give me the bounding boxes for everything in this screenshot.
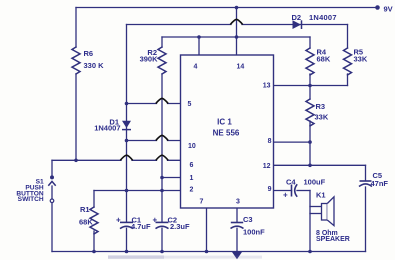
svg-text:33K: 33K — [354, 54, 368, 63]
wire C5 column — [365, 165, 367, 251]
svg-text:1N4007: 1N4007 — [309, 13, 337, 22]
wire hop over D1 column on pin 6 line — [120, 155, 132, 160]
svg-text:C4: C4 — [286, 177, 296, 186]
wire hop over pin14 column on line B — [230, 19, 242, 24]
wire hop over C2 column on pin 6 line — [156, 155, 168, 160]
resistor R1 — [90, 207, 98, 234]
wire pin 2 line (R1 top to IC) — [94, 190, 181, 192]
svg-text:330 K: 330 K — [84, 61, 105, 70]
wire R6 bottom lead to pin6 line — [75, 74, 77, 160]
wire R1 bottom lead — [93, 231, 95, 252]
op-amp U1 / IC box IC1 NE556 — [181, 55, 274, 208]
svg-text:R3: R3 — [316, 102, 326, 111]
wire line B right of hop — [242, 24, 348, 26]
wire pin 3 stub / C3 column — [236, 208, 238, 252]
switch S1 push button — [16, 175, 55, 203]
node C2 column / pin1 line — [160, 176, 164, 180]
node D1 column / pin5 line — [125, 102, 129, 106]
svg-text:9V: 9V — [384, 5, 393, 14]
ground — [232, 251, 243, 259]
wire R5 bottom lead — [347, 74, 349, 86]
wire pin 8 line — [274, 141, 311, 143]
wire speaker column — [309, 191, 311, 252]
svg-text:9: 9 — [268, 186, 272, 193]
wire speaker bottom stub — [310, 213, 322, 215]
svg-text:2.3uF: 2.3uF — [170, 222, 190, 231]
svg-text:2: 2 — [190, 186, 194, 193]
svg-text:1: 1 — [190, 175, 194, 182]
resistor label R1 — [79, 205, 93, 227]
resistor label R4 — [317, 48, 331, 64]
svg-text:R1: R1 — [80, 205, 90, 214]
svg-text:100nF: 100nF — [243, 227, 265, 236]
wire pin 5 line — [127, 103, 181, 105]
svg-text:NE 556: NE 556 — [213, 129, 240, 138]
resistor label R2 — [140, 48, 159, 64]
svg-text:+: + — [153, 215, 158, 224]
node pin7 / ground rail — [205, 250, 209, 254]
svg-text:68K: 68K — [317, 54, 331, 63]
wire line B (D1 top to D2 to R5) — [127, 24, 232, 26]
node 9V supply terminal — [375, 5, 392, 14]
wire pin 4 stub — [198, 37, 200, 55]
wire R2/C2 column — [161, 74, 163, 252]
svg-text:+: + — [283, 190, 288, 199]
capacitor C4 100uF — [283, 177, 326, 199]
speaker K1 8 Ohm — [316, 190, 350, 243]
wire S1 arm — [51, 186, 53, 199]
svg-text:6: 6 — [190, 162, 194, 169]
svg-text:4: 4 — [194, 64, 198, 71]
svg-text:13: 13 — [263, 82, 271, 89]
svg-text:D2: D2 — [292, 13, 302, 22]
node R1 / ground rail — [92, 250, 96, 254]
wire pin 14 stub — [236, 8, 238, 56]
wire pin 9 line to C4 — [274, 190, 292, 192]
svg-text:SPEAKER: SPEAKER — [316, 236, 350, 243]
resistor label R3 — [315, 102, 329, 122]
node C2 column / pin2 line — [160, 189, 164, 193]
artifact smudge below ground rail — [108, 255, 164, 258]
svg-text:3: 3 — [236, 198, 240, 205]
resistor R2 — [158, 47, 166, 74]
node R4 R5 / pin13 line — [308, 84, 312, 88]
svg-text:100uF: 100uF — [304, 177, 326, 186]
wire D1/C1 column — [126, 25, 128, 252]
svg-text:K1: K1 — [316, 190, 326, 199]
diode D2 1N4007 — [292, 13, 337, 29]
svg-text:7: 7 — [200, 198, 204, 205]
node D1 column / pin10 line — [125, 139, 129, 143]
svg-text:33K: 33K — [315, 113, 329, 122]
wire R4 top lead from line C — [309, 37, 311, 48]
node C1 / ground rail — [125, 250, 129, 254]
svg-text:14: 14 — [237, 64, 245, 71]
resistor label R6 — [84, 49, 105, 70]
wire hop over R2 column on pin 5 line — [156, 98, 168, 103]
wire pin 12 line — [274, 164, 366, 166]
wire R3 bottom lead to pin8/pin12 lines — [309, 121, 311, 165]
node C2 / ground rail — [160, 250, 164, 254]
svg-text:5: 5 — [188, 101, 192, 108]
wire R5 top lead from line B — [347, 25, 349, 49]
capacitor C3 100nF — [231, 215, 266, 236]
node R6 / pin6 line — [74, 159, 78, 163]
wire pin 6 line — [52, 159, 181, 161]
resistor R3 — [306, 99, 314, 126]
wire top +9V rail — [76, 7, 377, 9]
resistor label R5 — [354, 48, 368, 64]
wire speaker top stub — [310, 206, 322, 208]
wire pin 7 stub — [206, 208, 208, 252]
capacitor C5 47nF — [359, 171, 388, 188]
resistor R4 — [306, 48, 314, 75]
svg-text:C3: C3 — [243, 215, 253, 224]
node C1 column / pin2 line — [125, 189, 129, 193]
svg-text:R6: R6 — [84, 49, 94, 58]
svg-text:68K: 68K — [79, 218, 93, 227]
wire R2 top lead — [161, 37, 163, 47]
node R3 / pin8 line — [308, 140, 312, 144]
wire pin 1 line — [162, 177, 181, 179]
diode D1 1N4007 — [94, 117, 131, 132]
node R3 / pin12 line — [308, 164, 312, 168]
wire line C (R2 top to pin4/pin14 to R4) — [162, 36, 310, 38]
svg-text:1N4007: 1N4007 — [94, 124, 120, 133]
wire bottom ground rail — [52, 251, 366, 253]
svg-text:390K: 390K — [140, 55, 159, 64]
svg-text:8: 8 — [268, 138, 272, 145]
svg-text:10: 10 — [188, 143, 196, 150]
capacitor C1 4.7uF — [116, 215, 151, 231]
wire C4 to speaker node — [297, 190, 310, 192]
capacitor C2 2.3uF — [153, 215, 191, 231]
wire pin 10 line — [127, 140, 181, 142]
wire pin 13 line — [274, 85, 348, 87]
svg-text:47nF: 47nF — [371, 179, 389, 188]
svg-text:12: 12 — [263, 163, 271, 170]
wire S1 column bottom — [51, 203, 53, 252]
wire R4 bottom lead — [309, 74, 311, 86]
wire R1 column — [93, 191, 95, 208]
node pin14/line C junction — [235, 35, 239, 39]
node speaker column / ground rail — [308, 250, 312, 254]
wire R3 top lead — [309, 86, 311, 100]
svg-text:IC 1: IC 1 — [217, 118, 232, 127]
wire S1 column top — [51, 160, 53, 176]
svg-text:4.7uF: 4.7uF — [131, 222, 151, 231]
resistor R6 — [72, 47, 80, 74]
svg-text:SWITCH: SWITCH — [18, 196, 44, 203]
wire hop over R2 column on pin 10 line — [156, 135, 168, 140]
wire R6 top lead from rail — [75, 8, 77, 48]
resistor R5 — [344, 48, 352, 75]
node pin4/line C junction — [197, 35, 201, 39]
svg-text:+: + — [116, 215, 121, 224]
node pin14/rail junction — [235, 6, 239, 10]
